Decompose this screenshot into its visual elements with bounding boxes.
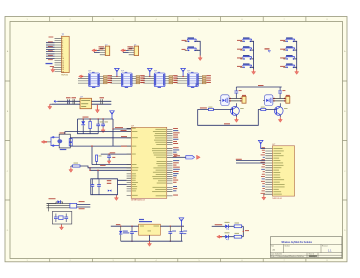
connector J1 pin numbers [62,38,64,73]
net label stub left [196,84,199,88]
antenna U4 output [179,218,184,226]
transistor Q2 [274,103,287,117]
antenna K2 [115,68,120,77]
capacitor C4 [96,119,103,134]
capacitor C3 [100,97,105,104]
switch S3 [237,37,253,42]
junction dots M2 [273,98,285,102]
connector P2 body [105,44,110,55]
LED D4 row [222,232,230,240]
svg-text:Wireless JoyStick For Arduino: Wireless JoyStick For Arduino [282,240,313,244]
MCU U1 pin names right [152,129,166,196]
connector J1 net labels [48,37,54,67]
wire crystal drop [97,170,98,179]
joystick connector K3 labels [141,76,144,84]
port HWB [186,156,195,159]
wire switch column C [294,41,297,69]
wire U4 output rail [160,226,184,227]
capacitor C1 [66,97,71,104]
port arrow P2 [92,49,97,52]
connector J1 wires [46,43,55,59]
connector P3 labels [127,46,132,49]
crystal capacitor C7 [90,179,94,195]
joystick connector K4 body [188,70,199,88]
resistor R3 [242,95,246,103]
wire AVCC row [101,152,131,154]
svg-text:HDR16: HDR16 [61,74,68,76]
svg-text:1.1: 1.1 [328,248,332,252]
wire U4 input rail [111,224,139,227]
wire regulator input [52,101,80,104]
resistor R7 [70,201,90,209]
ground arrow crystal [114,195,118,201]
crystal labels [107,180,112,184]
capacitor C9 [234,87,241,99]
wire UGnd row [89,167,131,168]
resistor R2 [96,155,102,165]
title block [270,237,342,258]
connector P2 labels [99,46,105,49]
connector P2 pins [100,48,106,55]
switch S9 [280,55,296,60]
wire R10 to MCU [80,166,90,168]
diode D2 [47,198,63,203]
svg-text:16: 16 [62,71,64,73]
resistor R10 shield [71,163,80,167]
wire VBUS to MCU [65,132,131,135]
border zone ticks bottom [50,259,306,262]
border zone ticks left and right [5,81,347,200]
wire rail branch down [112,129,114,146]
connector P3 wires [123,50,129,52]
wire UCAP branch [91,145,92,164]
ground switch group A [198,56,202,61]
wire rail to MCU UVcc [112,119,131,130]
wifi module U3 pin stubs [265,149,272,195]
antenna VCC rail [110,111,115,119]
junction dots power rail [83,118,104,119]
port arrow P3 [121,49,126,52]
MCU U1 left pin stubs [127,128,132,195]
USB connector J2 body [57,133,70,151]
wifi module U3 pin names [273,148,284,194]
switch S4 [237,46,253,51]
resistor R1 [89,119,91,134]
connector P2 wires [94,50,100,52]
ground arrow Q1 [235,117,239,122]
joystick connector K2 wires [111,76,138,83]
LED D1 [81,119,85,134]
joystick connector K3 body [154,70,165,88]
resistor array RN4 [202,75,211,84]
regulator U2 body [80,97,92,109]
switch S10 [280,63,296,68]
MCU U1 right pin stubs [167,129,173,196]
wire XTAL rows [118,180,127,184]
reset sub box [49,204,72,224]
joystick connector K2 body [121,70,132,88]
resistor R5 [286,95,290,103]
wire USB D+ [70,145,131,147]
resistor R6 input [261,107,266,111]
antenna K3 [148,68,153,77]
capacitor C14 [180,226,188,241]
resistor R8 [229,223,244,228]
joystick connector K1 wires [78,76,105,83]
crystal Y2 [54,214,68,223]
diode D5 [119,226,129,241]
connector J1 ground arrow [51,67,55,72]
ground arrow C5 [101,128,105,133]
switch S1 [182,37,199,42]
wire U3 RXD [236,159,265,161]
reset rails [47,204,70,208]
power rail wire [78,117,114,134]
svg-text:Size: Size [271,246,274,248]
wifi module U3 net labels [261,147,265,193]
transistor Q1 [231,103,244,117]
switch S5 [237,55,253,60]
ESD array Z1 [69,139,72,146]
wire GND row [89,168,131,171]
connector J1 blue net label [46,63,53,64]
junction dots M1 [230,98,242,102]
USB shield loop [51,136,59,146]
port arrow K1 [79,75,84,78]
net label Vcc column C [265,48,271,52]
ground arrow VIN [48,104,52,109]
wire USB D- [70,137,131,139]
wire switch group A [195,41,200,55]
switch S2 [182,46,199,51]
ground arrow U4 [148,241,152,246]
port arrow USB [41,140,51,143]
resistor array RN3 [169,75,178,84]
wire Q2 input [258,108,276,110]
wifi module U3 body [272,144,294,200]
port regulator input [54,100,58,102]
capacitor C2 [72,97,77,104]
connector J1 pin stubs [55,38,62,71]
antenna U3 [258,140,265,148]
wire regulator output [92,101,112,104]
joystick connector K4 labels [174,76,177,84]
capacitor C13 [168,226,176,242]
wire switch column B [250,41,253,69]
MCU U1 right net labels [173,128,180,195]
motor M1 body [219,95,229,106]
switch S8 [280,46,296,51]
antenna K4 [181,68,186,77]
wire UCAP row [92,165,131,166]
LED D3 row [212,222,230,230]
ground arrow U3 [262,194,266,200]
connector P3 pins [129,48,135,55]
connector P3 body [134,44,139,55]
regulator U4 body [139,219,161,235]
motor M2 body [263,95,273,106]
crystal capacitor C8 [97,179,101,195]
ground arrow Q2 [278,117,282,122]
wire HWB port [173,155,186,157]
switch S6 [237,63,253,68]
wire U3 TXD [236,162,265,164]
MCU U1 body [131,126,167,202]
power arrow regulator gnd [95,105,99,113]
capacitor C11 [130,226,137,242]
wire U4 gnd stem [149,235,151,241]
resistor R4 input [208,107,213,111]
wire LED join [243,226,249,236]
svg-text:ATMEGA32U4: ATMEGA32U4 [131,199,145,202]
capacitor C10 [278,87,285,99]
wire M2 to R5 [273,99,286,101]
resistor array RN2 [136,75,145,84]
wire VCC rail transistors [236,85,281,87]
border zone ticks top [50,17,306,22]
crystal loop Y1 [91,179,118,195]
resistor array RN1 [103,75,112,84]
wire U4 ground rail [121,241,183,242]
wire M1 to R3 [229,99,242,101]
port arrow TX row [217,235,222,238]
port arrow HWB [197,155,201,159]
joystick connector K2 labels [108,76,111,84]
MCU U1 pin names left [132,128,138,196]
resistor R9 [229,233,244,238]
capacitor C6 [107,154,115,161]
MCU U1 left net labels [121,130,128,147]
svg-text:Revision: Revision [322,246,328,248]
crystal bowtie [108,190,112,192]
wire input bus bottom [198,109,259,125]
joystick connector K1 body [89,70,100,88]
ground switch column B [252,69,256,74]
ground arrow R10 [69,166,73,172]
joystick connector K3 wires [143,76,170,83]
ground arrow reset [60,224,64,230]
svg-text:NRF24L01: NRF24L01 [272,198,283,200]
joystick connector K4 wires [177,76,204,83]
connector J1 body [61,34,69,77]
capacitor C5 [101,119,108,128]
power arrow C6 gnd [107,161,111,164]
ground switch column C [295,69,299,74]
wire Q1 input [198,108,233,110]
switch S7 [280,37,296,42]
